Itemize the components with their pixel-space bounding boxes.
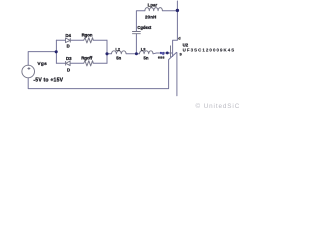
svg-text:Rgoff: Rgoff	[81, 56, 93, 61]
svg-text:ng: ng	[160, 51, 165, 55]
svg-text:Vgs: Vgs	[37, 61, 47, 67]
svg-text:Cgdext: Cgdext	[137, 25, 152, 30]
svg-text:L2: L2	[115, 46, 120, 51]
svg-text:L3: L3	[141, 46, 146, 51]
svg-text:-5V to +15V: -5V to +15V	[33, 77, 63, 83]
svg-text:5n: 5n	[116, 56, 121, 61]
svg-text:5n: 5n	[144, 56, 149, 61]
svg-text:D: D	[67, 44, 70, 49]
svg-text:© UnitedSiC: © UnitedSiC	[196, 102, 241, 110]
svg-text:UF3SC120009K4S: UF3SC120009K4S	[183, 47, 236, 52]
svg-text:D3: D3	[66, 56, 72, 61]
svg-text:D: D	[67, 67, 70, 72]
svg-text:20nH: 20nH	[145, 14, 157, 19]
svg-text:Lpar: Lpar	[148, 3, 158, 8]
svg-text:ess: ess	[158, 56, 165, 60]
svg-text:Rgon: Rgon	[82, 33, 93, 38]
svg-text:D4: D4	[65, 33, 71, 38]
